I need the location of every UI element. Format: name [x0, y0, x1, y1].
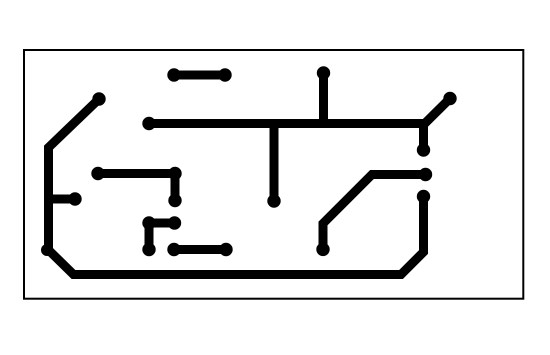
- wire: upward stub of bus: [319, 73, 328, 124]
- pad right end of r-trace: [168, 216, 181, 229]
- junction pad at lower-left corner of main trace: [41, 244, 53, 256]
- pad left end of lower jumper: [167, 243, 180, 256]
- pad at top of upward stub: [317, 66, 330, 79]
- pad bottom end of z-trace: [316, 243, 329, 256]
- wire: left stub off main trace vertical: [49, 195, 76, 204]
- pad bottom end of r-trace: [142, 243, 155, 256]
- pad at end of left stub: [68, 192, 81, 205]
- wire: lower short jumper trace: [174, 245, 226, 254]
- board outline frame: [24, 50, 523, 299]
- pad corner of L-trace: [168, 167, 181, 180]
- pad bottom end of L-trace: [168, 194, 181, 207]
- wire: top short jumper trace: [174, 71, 225, 80]
- pad right end of top jumper: [218, 68, 231, 81]
- pad corner of r-trace: [142, 216, 155, 229]
- pad at end of short drop branch: [417, 143, 430, 156]
- wire: short drop branch at right of bus: [419, 124, 428, 151]
- pad at top of main trace diagonal: [92, 92, 105, 105]
- pad left end of top jumper: [167, 68, 180, 81]
- wire: L-trace (horizontal then down): [98, 174, 175, 201]
- wire: main ground trace outline (diagonal, left vertical, bottom run, right rise): [49, 99, 424, 275]
- wire: z-trace (up, diagonal, horizontal) lower right: [323, 175, 426, 250]
- pad left end of L-trace: [91, 167, 104, 180]
- wire: small r-trace (horizontal then down): [149, 223, 175, 250]
- pad at left end of bus trace: [142, 117, 155, 130]
- wire: middle drop branch of bus: [270, 124, 279, 202]
- pad at right end of main trace: [417, 190, 430, 203]
- pad right end of z-trace: [419, 168, 432, 181]
- pad at diagonal end of bus trace: [443, 92, 456, 105]
- pad at end of middle drop branch: [267, 194, 280, 207]
- pad right end of lower jumper: [219, 243, 232, 256]
- wire: long horizontal bus trace with diagonal end: [149, 99, 450, 124]
